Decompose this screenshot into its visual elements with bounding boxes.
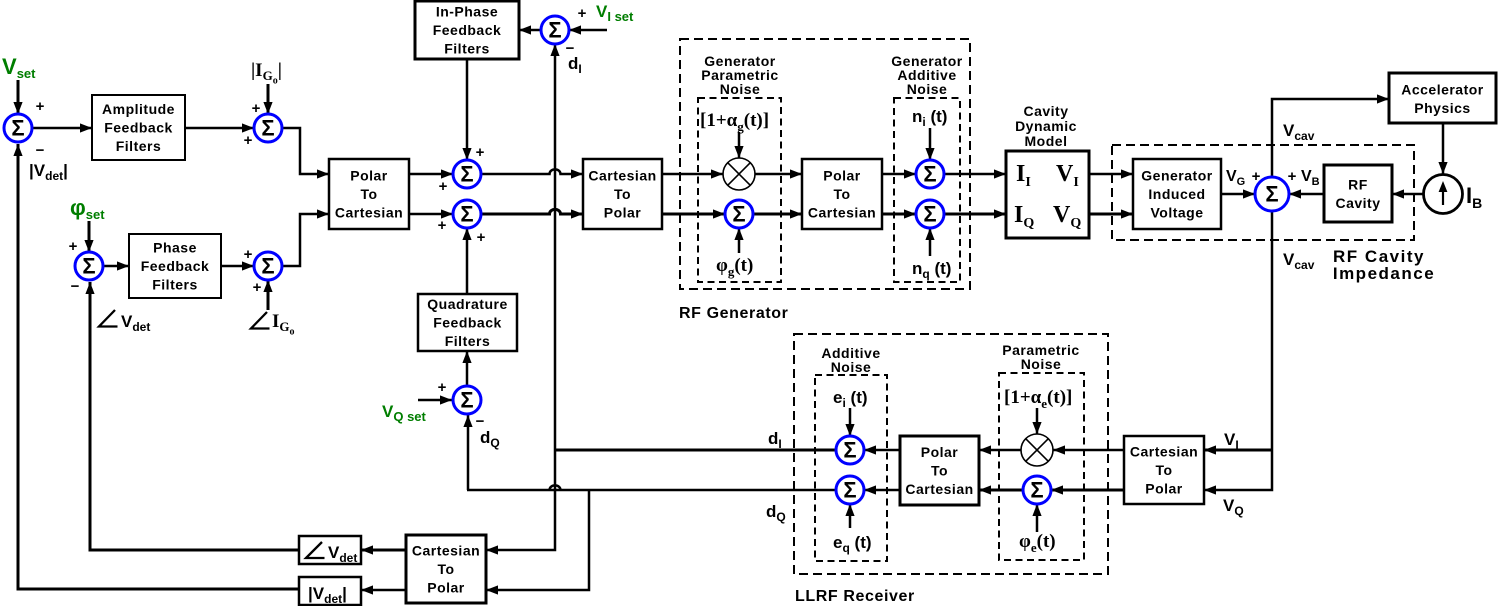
svg-text:φe(t): φe(t) [1019,531,1056,555]
svg-text:Filters: Filters [152,277,198,293]
wire: RF Cavity to SBig [1289,193,1324,196]
wire: S4 to Polar-To-Cartesian lower input [282,214,329,266]
svg-text:−: − [36,142,45,159]
summing junction S9 (generator phase noise) [725,200,753,228]
wire: generator Polar-To-Cartesian to S11 [882,213,916,216]
svg-text:+: + [244,246,253,263]
wire: S5 to Cartesian-To-Polar upper (hop) [481,169,583,174]
block: Cartesian To Polar (bottom) [406,535,486,603]
svg-text:+: + [477,229,486,246]
summing junction S8 (V_I set - d_I) [541,16,569,44]
svg-text:Cavity: Cavity [1023,103,1068,119]
wire: |I_Go| input arrow into S2 [267,84,270,114]
svg-text:Polar: Polar [1145,481,1183,497]
wire: M2 to receiver Polar-To-Cartesian [979,449,1021,452]
wire: V_I to Generator Induced Voltage [1089,173,1133,176]
svg-text:Model: Model [1025,133,1068,149]
svg-text:Feedback: Feedback [104,120,173,136]
svg-text:Phase: Phase [153,240,197,256]
summing junction S2 (+ |I_Go|) [254,114,282,142]
svg-text:To: To [360,186,377,202]
wire: M1 to generator Polar-To-Cartesian [755,173,802,176]
block: Cavity Dynamic Model [1006,151,1089,238]
block: Polar To Cartesian (generator) [802,159,882,229]
svg-text:Cartesian: Cartesian [905,481,973,497]
svg-text:Polar: Polar [921,444,959,460]
svg-text:To: To [437,561,454,577]
svg-text:[1+αg(t)]: [1+αg(t)] [700,110,769,134]
wire: S11 to Cavity Dynamic Model I_Q [944,213,1006,216]
block: Polar To Cartesian (receiver) [900,436,979,505]
wire: e_i(t) down into S12 [849,408,852,436]
svg-text:Σ: Σ [261,253,274,278]
dashed box: Generator Additive Noise group [894,98,960,282]
wire: S7 up into Quadrature Feedback Filters [466,351,469,385]
svg-text:In-Phase: In-Phase [436,4,498,20]
svg-text:Polar: Polar [604,205,642,221]
svg-text:Σ: Σ [82,253,95,278]
svg-text:+: + [476,144,485,161]
svg-text:Polar: Polar [427,580,465,596]
wire: d_I vertical feedback up into S8 [554,44,557,450]
wire: n_i(t) down into S10 [929,128,932,160]
svg-text:Σ: Σ [11,115,24,140]
svg-text:Filters: Filters [445,333,491,349]
svg-text:+: + [69,238,78,255]
svg-text:+: + [1252,168,1261,185]
dashed box: receiver Parametric Noise group [999,373,1084,560]
wire: d_I output from S12 to junction [555,449,836,452]
multiplier M1 (generator amplitude noise) [723,158,755,190]
summing junction S12 (e_i additive) [836,436,864,464]
svg-text:Σ: Σ [732,201,745,226]
wire: Cartesian-To-Polar to S9 [662,213,725,216]
wire: d_Q up into S7 [467,415,470,490]
svg-text:Σ: Σ [460,387,473,412]
summing junction S11 (n_q additive) [916,200,944,228]
wire: receiver Polar-To-Cartesian to S12 [864,449,900,452]
svg-text:Voltage: Voltage [1150,205,1203,221]
wire: angle I_Go input arrow into S4 [267,280,270,310]
wire: angle V_det feedback to S3 [90,282,299,550]
summing junction S14 (receiver phase noise) [1023,476,1051,504]
wire: V_Q to Generator Induced Voltage [1089,213,1133,216]
wire: phi_g(t) up into S9 [738,228,741,253]
wire: e_q(t) up into S13 [849,504,852,528]
svg-text:+: + [439,178,448,195]
svg-text:ei (t): ei (t) [833,388,868,410]
svg-text:Cartesian: Cartesian [335,205,403,221]
wire: d_I branch down to bottom Cartesian-To-Polar [486,450,555,550]
summing junction S5 (I path) [453,160,481,188]
wire: [1+alpha_e(t)] down into M2 [1036,408,1039,434]
wire: S9 to generator Polar-To-Cartesian [753,213,802,216]
wire: S1 to Amplitude Feedback Filters [32,127,92,130]
block: Amplitude Feedback Filters [92,95,185,160]
svg-text:Noise: Noise [907,81,948,97]
block: Phase Feedback Filters [129,234,221,298]
wire: generator Polar-To-Cartesian to S10 [882,173,916,176]
svg-text:eq (t): eq (t) [833,533,872,555]
svg-text:Σ: Σ [843,437,856,462]
dashed box: LLRF Receiver group [794,334,1108,574]
svg-text:−: − [71,278,80,295]
wire: Cartesian-To-Polar to multiplier M1 [662,173,723,176]
dashed box: RF Generator group [680,39,970,289]
svg-text:−: − [476,413,485,430]
wire: d_Q branch down to bottom Cartesian-To-Polar [486,490,589,590]
summing junction S10 (n_i additive) [916,160,944,188]
wire: V_Q set input into S7 [418,399,452,402]
wire: Generator Induced Voltage to SBig [1221,193,1255,196]
wire: Polar-To-Cartesian to S6 (Q) [409,213,453,216]
svg-text:Σ: Σ [548,17,561,42]
wire: V_cav down from SBig [1204,210,1272,490]
wire: S2 to Polar-To-Cartesian upper input [282,128,329,174]
wire: V_I set input into S8 [569,29,607,32]
wire: |V_det| feedback to S1 [18,144,299,589]
summing junction SBig (V_G + V_B) [1255,177,1289,211]
block: Quadrature Feedback Filters [418,294,517,351]
wire: S3 to Phase Feedback Filters [103,265,129,268]
summing junction S1 (V_set - |V_det|) [4,114,32,142]
label: angle I_Go below S4 [251,312,270,329]
summing junction S13 (e_q additive) [836,476,864,504]
svg-text:Feedback: Feedback [141,258,210,274]
svg-text:φg(t): φg(t) [716,255,753,279]
block: In-Phase Feedback Filters [415,1,519,59]
wire: S14 to receiver Polar-To-Cartesian [979,489,1023,492]
wire: bottom Cartesian-To-Polar to angle V_det box [361,549,406,552]
svg-text:Induced: Induced [1148,186,1205,202]
svg-text:Cartesian: Cartesian [1130,444,1198,460]
svg-text:Σ: Σ [1030,477,1043,502]
svg-text:Noise: Noise [720,81,761,97]
svg-text:−: − [566,40,575,57]
wire: In-Phase Feedback Filters down into S5 [466,59,469,160]
svg-text:RF: RF [1348,176,1368,192]
svg-text:Physics: Physics [1414,100,1470,116]
svg-text:Σ: Σ [460,161,473,186]
multiplier M2 (receiver amplitude noise) [1021,434,1053,466]
svg-text:+: + [252,100,261,117]
svg-text:+: + [438,217,447,234]
svg-text:nq (t): nq (t) [912,259,951,281]
wire: phi_set input arrow into S3 [88,221,91,252]
svg-text:Generator: Generator [1141,168,1212,184]
summing junction S6 (Q path) [453,200,481,228]
svg-text:+: + [578,5,587,22]
svg-text:Noise: Noise [831,359,872,375]
wire: receiver Cartesian-To-Polar to M2 [1053,449,1124,452]
svg-text:To: To [833,186,850,202]
svg-text:+: + [438,379,447,396]
svg-text:Feedback: Feedback [433,22,502,38]
svg-text:+: + [253,279,262,296]
svg-text:Σ: Σ [261,115,274,140]
svg-text:Amplitude: Amplitude [102,101,175,117]
svg-text:Σ: Σ [923,161,936,186]
wire: S10 to Cavity Dynamic Model I_I [944,173,1006,176]
current source I_B symbol [1424,175,1463,214]
wire: Polar-To-Cartesian to S5 (I) [409,173,453,176]
svg-text:Cartesian: Cartesian [412,543,480,559]
wire: phi_e(t) up into S14 [1036,504,1039,532]
wire: S8 output into In-Phase Feedback Filters [519,29,541,32]
svg-text:Noise: Noise [1021,356,1062,372]
svg-text:Cartesian: Cartesian [808,205,876,221]
summing junction S7 (V_Q set - d_Q) [453,386,481,414]
dashed box: RF Cavity Impedance group [1112,145,1414,240]
wire: Amplitude Feedback Filters to S2 [185,127,254,130]
block: Cartesian To Polar (receiver) [1124,436,1204,504]
block: |V_det| readout box [299,577,361,605]
svg-text:[1+αe(t)]: [1+αe(t)] [1004,387,1072,411]
wire: Phase Feedback Filters to S4 [221,265,254,268]
dashed box: receiver Additive Noise group [815,375,887,561]
svg-text:+: + [1288,168,1297,185]
block: Accelerator Physics [1389,73,1496,123]
wire: bottom Cartesian-To-Polar to |V_det| box [361,589,406,592]
svg-text:LLRF Receiver: LLRF Receiver [795,588,915,605]
label: angle V_det near S3 [99,310,118,327]
block: Polar To Cartesian (main) [329,159,409,229]
wire: d_Q output from S13 leftwards (hop at 555) [467,485,836,490]
svg-text:ni (t): ni (t) [912,107,947,129]
svg-text:+: + [244,132,253,149]
svg-text:+: + [36,98,45,115]
svg-text:RF Generator: RF Generator [679,305,788,322]
block: angle V_det readout box [299,536,361,564]
svg-text:Polar: Polar [350,168,388,184]
block: Generator Induced Voltage [1133,159,1221,229]
summing junction S4 (+ angle I_Go) [254,252,282,280]
wire: current source to RF Cavity [1392,193,1423,196]
svg-text:Cavity: Cavity [1335,195,1380,211]
svg-text:To: To [1155,462,1172,478]
svg-text:Dynamic: Dynamic [1015,118,1077,134]
svg-text:Σ: Σ [843,477,856,502]
svg-text:Σ: Σ [1265,181,1278,206]
wire: Accelerator Physics down into current source [1442,123,1445,174]
dashed box: Generator Parametric Noise group [698,98,781,282]
svg-text:Feedback: Feedback [433,315,502,331]
svg-text:Accelerator: Accelerator [1401,81,1484,97]
svg-text:Filters: Filters [444,41,490,57]
wire: receiver Cartesian-To-Polar to S14 [1051,489,1124,492]
svg-text:Polar: Polar [823,168,861,184]
svg-text:Impedance: Impedance [1333,264,1435,283]
summing junction S3 (phi_set - angle V_det) [75,252,103,280]
wire: V_I branch into receiver Cartesian-To-Polar [1204,449,1272,452]
svg-text:Quadrature: Quadrature [427,296,507,312]
svg-text:Σ: Σ [923,201,936,226]
wire: [1+alpha_g(t)] down into M1 [738,132,741,158]
svg-text:Σ: Σ [460,201,473,226]
wire: S6 to Cartesian-To-Polar lower (hop) [481,209,583,214]
svg-text:To: To [931,463,948,479]
wire: SBig V_cav up to Accelerator Physics [1272,99,1389,178]
svg-text:Cartesian: Cartesian [588,168,656,184]
wire: V_set input arrow into S1 [17,80,20,114]
block: Cartesian To Polar (top) [583,159,662,229]
svg-text:To: To [614,186,631,202]
wire: receiver Polar-To-Cartesian to S13 [864,489,900,492]
wire: n_q(t) up into S11 [929,228,932,256]
block: RF Cavity [1324,165,1392,222]
svg-text:Filters: Filters [116,138,162,154]
wire: Quadrature Feedback Filters up into S6 [466,228,469,294]
